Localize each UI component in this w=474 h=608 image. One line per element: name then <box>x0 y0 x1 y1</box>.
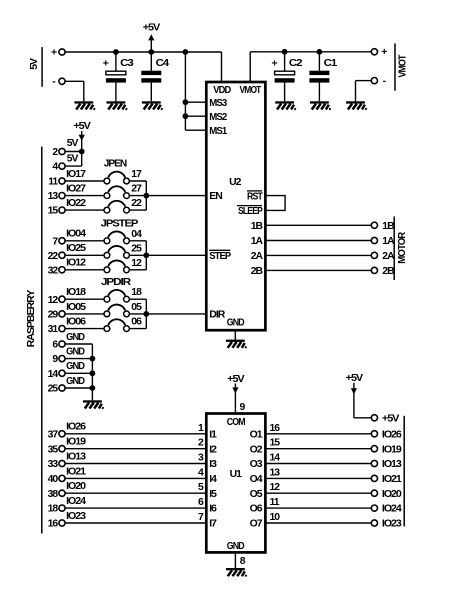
wire <box>355 81 357 102</box>
connector RASPBERRY bracket <box>41 147 43 534</box>
terminal IO19 <box>371 446 377 452</box>
svg-text:+5V: +5V <box>346 373 364 384</box>
connector pin 7 (IO04) <box>52 236 65 247</box>
jumper JPEN row pins <box>104 201 129 213</box>
ground (U2) <box>226 340 246 349</box>
svg-text:13: 13 <box>270 467 281 478</box>
svg-text:40: 40 <box>48 474 59 485</box>
connector pin 35 (IO19) <box>48 444 65 455</box>
svg-text:16: 16 <box>48 519 59 530</box>
wire MS3 stub <box>185 101 206 103</box>
wire MS2 stub <box>185 115 206 117</box>
jumper JPSTEP row pins <box>104 231 129 243</box>
ground (C2) <box>275 101 295 110</box>
ground (C3) <box>107 101 127 110</box>
svg-text:VDD: VDD <box>213 85 231 96</box>
wire <box>284 52 286 71</box>
svg-text:C1: C1 <box>324 58 338 69</box>
wire O5 to terminal <box>265 482 371 493</box>
svg-text:18: 18 <box>131 287 142 298</box>
wire 25 <box>130 243 147 255</box>
junction GND <box>90 356 96 362</box>
junction STEP <box>143 252 149 258</box>
junction DIR <box>143 311 149 317</box>
junction MS3 <box>183 99 189 105</box>
svg-text:GND: GND <box>66 347 85 358</box>
svg-text:O4: O4 <box>250 474 263 485</box>
svg-text:GND: GND <box>66 332 85 343</box>
svg-text:IO13: IO13 <box>382 459 402 470</box>
svg-text:RASPBERRY: RASPBERRY <box>26 290 37 348</box>
jumper JPDIR row pins <box>104 290 129 302</box>
svg-text:SLEEP: SLEEP <box>238 206 263 217</box>
wire IO27 <box>65 184 104 196</box>
svg-text:1A: 1A <box>382 236 395 247</box>
svg-text:25: 25 <box>131 243 142 254</box>
connector pin 32 (IO12) <box>48 265 65 276</box>
svg-text:O5: O5 <box>250 489 263 500</box>
connector pin 6 (GND) <box>52 340 65 351</box>
terminal 1A <box>371 237 377 243</box>
wire IO21 to U1 <box>65 466 206 478</box>
junction GND <box>90 370 96 376</box>
wire +5V stem <box>150 40 152 53</box>
svg-text:IO24: IO24 <box>382 504 402 515</box>
svg-text:GND: GND <box>227 541 245 552</box>
svg-text:IO04: IO04 <box>66 229 86 240</box>
wire O4 to terminal <box>265 467 371 478</box>
junction C3/rail <box>113 49 119 55</box>
wire 1B <box>265 224 371 226</box>
wire U1 GND <box>234 552 236 568</box>
connector pin 2 (5V) <box>52 147 65 158</box>
net IO bracket (right) <box>403 416 405 527</box>
terminal 1B <box>371 222 377 228</box>
wire <box>318 83 320 102</box>
svg-text:32: 32 <box>48 265 59 276</box>
svg-text:31: 31 <box>48 324 59 335</box>
svg-text:MS3: MS3 <box>209 98 227 109</box>
connector pin 4 (5V) <box>52 162 65 173</box>
terminal IO26 <box>371 431 377 437</box>
svg-text:IO20: IO20 <box>66 481 86 492</box>
svg-text:17: 17 <box>131 169 142 180</box>
capacitor C1 <box>309 58 337 82</box>
op-amp U1 box <box>206 414 265 553</box>
net MOTOR bracket <box>393 217 395 281</box>
connector pin 37 (IO26) <box>48 429 65 440</box>
svg-text:14: 14 <box>48 369 59 380</box>
wire VMOT rail <box>250 51 371 53</box>
wire O7 to terminal <box>265 512 371 523</box>
svg-text:29: 29 <box>48 310 59 321</box>
svg-text:35: 35 <box>48 444 59 455</box>
svg-text:IO22: IO22 <box>66 198 86 209</box>
U2 pin RST label (overline) <box>247 191 263 203</box>
connector pin 9 (GND) <box>52 354 65 365</box>
wire IO12 <box>65 258 104 270</box>
wire <box>83 81 85 101</box>
svg-text:37: 37 <box>48 429 59 440</box>
junction EN <box>143 193 149 199</box>
capacitor C2 <box>271 58 302 82</box>
wire VDD pin <box>221 52 223 82</box>
svg-text:U1: U1 <box>230 469 243 480</box>
svg-text:IO05: IO05 <box>66 302 86 313</box>
svg-text:O2: O2 <box>250 444 263 455</box>
svg-text:IO21: IO21 <box>382 474 402 485</box>
connector pin 18 (IO24) <box>48 504 65 515</box>
+5V supply arrow (up) <box>148 34 154 40</box>
connector pin 22 (IO25) <box>48 251 65 262</box>
svg-text:5V: 5V <box>29 58 40 70</box>
svg-text:12: 12 <box>270 482 281 493</box>
svg-text:VMOT: VMOT <box>397 54 408 77</box>
wire <box>354 417 371 419</box>
wire JPSTEP tie <box>145 241 147 270</box>
+5V supply arrow (U1) <box>232 387 238 393</box>
svg-text:06: 06 <box>131 317 142 328</box>
wire +5V stem <box>81 131 83 152</box>
svg-text:O7: O7 <box>250 519 263 530</box>
svg-text:C4: C4 <box>156 58 170 69</box>
ground (GND bus) <box>83 400 103 409</box>
svg-text:+5V: +5V <box>73 121 91 132</box>
connector pin 14 (GND) <box>48 369 65 380</box>
svg-text:15: 15 <box>270 438 281 449</box>
wire O3 to terminal <box>265 453 371 464</box>
wire GND bus <box>91 344 93 400</box>
wire <box>284 83 286 102</box>
svg-text:IO21: IO21 <box>66 466 86 477</box>
wire 04 <box>130 229 147 241</box>
wire IO24 to U1 <box>65 496 206 508</box>
svg-text:GND: GND <box>227 318 245 329</box>
terminal 2A <box>371 252 377 258</box>
connector pin 15 (IO22) <box>48 206 65 217</box>
svg-text:JPEN: JPEN <box>104 159 127 170</box>
U2 pin STEP label (overline) <box>209 250 231 262</box>
wire 5V (pin 4) <box>65 153 81 166</box>
svg-text:2A: 2A <box>251 251 264 262</box>
wire <box>318 52 320 71</box>
wire O6 to terminal <box>265 497 371 508</box>
wire 17 <box>130 169 147 181</box>
connector pin 25 (GND) <box>48 384 65 395</box>
svg-text:1B: 1B <box>382 221 395 232</box>
capacitor C4 <box>141 58 169 82</box>
svg-text:13: 13 <box>48 191 59 202</box>
jumper JPEN row pins <box>104 172 129 184</box>
wire IO26 to U1 <box>65 422 206 434</box>
junction GND <box>90 385 96 391</box>
wire GND (pin 9) <box>65 347 92 359</box>
svg-text:C3: C3 <box>120 58 134 69</box>
wire <box>115 52 117 71</box>
wire IO18 <box>65 287 104 299</box>
connector pin 12 (IO18) <box>48 295 65 306</box>
wire O2 to terminal <box>265 438 371 449</box>
junction C4/rail <box>148 49 154 55</box>
terminal IO24 <box>371 505 377 511</box>
svg-text:18: 18 <box>48 504 59 515</box>
svg-text:IO13: IO13 <box>66 451 86 462</box>
svg-text:MS2: MS2 <box>209 112 227 123</box>
svg-text:5V: 5V <box>67 138 79 149</box>
svg-text:O3: O3 <box>250 459 263 470</box>
wire 05 <box>130 302 147 314</box>
connector pin 16 (IO23) <box>48 519 65 530</box>
junction pin2/pin4/+5V <box>79 149 85 155</box>
svg-text:O6: O6 <box>250 504 263 515</box>
svg-text:+5V: +5V <box>382 413 400 424</box>
svg-text:25: 25 <box>48 384 59 395</box>
wire 2B <box>265 269 371 271</box>
connector pin 13 (IO27) <box>48 191 65 202</box>
net VMOT bracket <box>394 43 396 90</box>
svg-text:IO12: IO12 <box>66 258 86 269</box>
ground (U1) <box>226 568 246 577</box>
svg-text:GND: GND <box>66 361 85 372</box>
ground (C4) <box>142 101 162 110</box>
svg-text:12: 12 <box>131 258 142 269</box>
wire +5V to COM <box>234 384 236 414</box>
jumper JPEN row pins <box>104 186 129 198</box>
wire MS1 stub <box>185 129 206 131</box>
svg-text:IO24: IO24 <box>66 496 86 507</box>
svg-text:5V: 5V <box>67 153 79 164</box>
wire IO20 to U1 <box>65 481 206 493</box>
wire 06 <box>130 317 147 329</box>
connector pin 40 (IO21) <box>48 474 65 485</box>
svg-text:DIR: DIR <box>209 310 225 321</box>
junction C2/rail <box>282 49 288 55</box>
wire MS tie vertical <box>184 52 186 130</box>
terminal +5V <box>371 415 377 421</box>
terminal 5V- <box>59 78 65 84</box>
connector pin 38 (IO20) <box>48 489 65 500</box>
wire <box>115 83 117 102</box>
svg-text:38: 38 <box>48 489 59 500</box>
jumper JPSTEP row pins <box>104 260 129 272</box>
terminal 2B <box>371 267 377 273</box>
terminal VMOT+ <box>371 49 377 55</box>
svg-text:33: 33 <box>48 459 59 470</box>
connector pin 11 (IO17) <box>48 177 65 188</box>
wire STEP <box>146 254 206 256</box>
connector pin 29 (IO05) <box>48 310 65 321</box>
wire <box>81 152 83 167</box>
wire JPDIR tie <box>145 299 147 328</box>
svg-text:IO26: IO26 <box>66 422 86 433</box>
svg-text:C2: C2 <box>289 58 303 69</box>
junction MS2 <box>183 113 189 119</box>
svg-text:U2: U2 <box>229 177 242 188</box>
wire 2A <box>265 254 371 256</box>
+5V supply arrow (down) <box>79 135 85 141</box>
wire EN <box>146 195 206 197</box>
wire 22 <box>130 198 147 210</box>
svg-text:IO06: IO06 <box>66 317 86 328</box>
wire IO19 to U1 <box>65 437 206 449</box>
jumper JPDIR row pins <box>104 319 129 331</box>
svg-text:IO18: IO18 <box>66 287 86 298</box>
svg-text:12: 12 <box>48 295 59 306</box>
junction C1/rail <box>317 49 323 55</box>
svg-text:11: 11 <box>270 497 280 508</box>
terminal VMOT- <box>371 78 377 84</box>
net 5V bracket <box>41 47 43 87</box>
svg-text:COM: COM <box>227 417 245 428</box>
wire 5V (pin 2) <box>65 138 81 151</box>
wire GND (pin 6) <box>65 332 92 344</box>
svg-text:11: 11 <box>48 177 58 188</box>
svg-text:VMOT: VMOT <box>240 85 262 96</box>
svg-text:04: 04 <box>131 229 142 240</box>
wire <box>150 83 152 102</box>
ground (C1) <box>310 101 330 110</box>
svg-text:MOTOR: MOTOR <box>397 231 408 263</box>
svg-text:IO19: IO19 <box>382 444 402 455</box>
wire +5V rail <box>65 51 221 53</box>
svg-text:JPDIR: JPDIR <box>101 277 132 288</box>
terminal IO23 <box>371 520 377 526</box>
svg-text:+5V: +5V <box>227 374 245 385</box>
junction MS rail <box>183 49 189 55</box>
svg-text:22: 22 <box>48 251 59 262</box>
wire IO04 <box>65 229 104 241</box>
wire IO05 <box>65 302 104 314</box>
wire GND (pin 25) <box>65 376 92 388</box>
svg-text:IO26: IO26 <box>382 429 402 440</box>
ground (VMOT-) <box>346 101 366 110</box>
svg-text:GND: GND <box>66 376 85 387</box>
svg-text:2A: 2A <box>382 251 395 262</box>
svg-text:IO25: IO25 <box>66 243 86 254</box>
svg-text:RST: RST <box>247 192 263 203</box>
wire IO06 <box>65 317 104 329</box>
svg-text:2B: 2B <box>382 266 395 277</box>
wire +5V <box>353 383 355 418</box>
svg-text:16: 16 <box>270 423 281 434</box>
wire DIR <box>146 313 206 315</box>
svg-text:14: 14 <box>270 453 281 464</box>
wire VMOT- to ground <box>356 80 372 82</box>
jumper JPDIR row pins <box>104 305 129 317</box>
svg-text:IO23: IO23 <box>66 511 86 522</box>
svg-text:2B: 2B <box>251 266 264 277</box>
terminal 5V+ <box>59 49 65 55</box>
wire 18 <box>130 287 147 299</box>
svg-text:EN: EN <box>209 191 222 202</box>
svg-text:05: 05 <box>131 302 142 313</box>
svg-text:IO27: IO27 <box>66 184 86 195</box>
wire U2 GND <box>234 330 236 339</box>
wire GND (pin 14) <box>65 361 92 373</box>
svg-text:MS1: MS1 <box>209 126 227 137</box>
wire O1 to terminal <box>265 423 371 434</box>
wire JPEN tie <box>145 181 147 210</box>
svg-text:15: 15 <box>48 206 59 217</box>
wire IO22 <box>65 198 104 210</box>
connector pin 33 (IO13) <box>48 459 65 470</box>
wire 12 <box>130 258 147 270</box>
terminal IO21 <box>371 475 377 481</box>
svg-text:10: 10 <box>270 512 281 523</box>
svg-text:IO17: IO17 <box>66 169 86 180</box>
svg-text:IO19: IO19 <box>66 437 86 448</box>
svg-text:STEP: STEP <box>209 251 231 262</box>
capacitor C3 <box>103 58 134 82</box>
jumper JPSTEP row pins <box>104 246 129 258</box>
svg-text:1A: 1A <box>251 236 264 247</box>
wire 1A <box>265 240 371 242</box>
wire 27 <box>130 184 147 196</box>
wire IO17 <box>65 169 104 181</box>
wire IO23 to U1 <box>65 511 206 523</box>
wire 5V- to ground <box>65 80 83 82</box>
terminal IO20 <box>371 490 377 496</box>
+5V supply arrow (right) <box>351 388 357 394</box>
svg-text:O1: O1 <box>250 429 263 440</box>
wire RST-SLEEP loop <box>265 196 285 211</box>
op-amp U2 driver box <box>206 82 265 330</box>
svg-text:22: 22 <box>131 198 142 209</box>
wire IO25 <box>65 243 104 255</box>
svg-text:1B: 1B <box>251 221 264 232</box>
connector pin 31 (IO06) <box>48 324 65 335</box>
wire IO13 to U1 <box>65 451 206 463</box>
svg-text:27: 27 <box>131 184 142 195</box>
svg-text:IO23: IO23 <box>382 519 402 530</box>
wire <box>150 52 152 71</box>
ground (5V-) <box>74 101 94 110</box>
svg-text:IO20: IO20 <box>382 489 402 500</box>
U2 pin SLEEP label (overline) <box>237 206 263 218</box>
svg-text:+5V: +5V <box>143 23 161 34</box>
terminal IO13 <box>371 460 377 466</box>
wire VMOT pin <box>249 52 251 82</box>
